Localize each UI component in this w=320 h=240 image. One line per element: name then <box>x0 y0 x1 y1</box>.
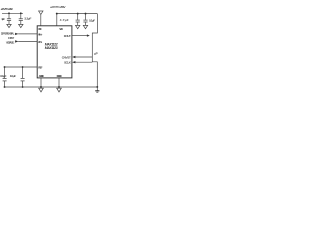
node dot gnd rail uP bus <box>96 86 98 88</box>
svg-text:AIN-: AIN- <box>38 40 42 44</box>
ground AGND <box>39 88 44 92</box>
svg-text:CNVST: CNVST <box>62 55 71 59</box>
svg-text:AIN+: AIN+ <box>38 32 43 36</box>
node dot DVDD rail <box>56 13 58 15</box>
ground for C1 <box>7 24 11 27</box>
svg-text:VOLTAGE: VOLTAGE <box>6 40 14 44</box>
svg-text:10µF: 10µF <box>10 74 17 78</box>
node dot REF wire C6 <box>22 66 24 68</box>
svg-text:MAX1123: MAX1123 <box>45 46 58 50</box>
wire DGND stub <box>58 78 60 87</box>
arrowhead CNVST <box>72 56 75 58</box>
wire AIN- input <box>18 40 37 42</box>
wire left supply rail <box>2 12 23 14</box>
wire top right supply rail <box>57 13 98 15</box>
wire uP bus right <box>92 14 97 91</box>
wire DOUT <box>72 35 87 37</box>
capacitor C3 right <box>76 14 80 26</box>
svg-text:+2.7V TO +5.5V: +2.7V TO +5.5V <box>50 5 65 9</box>
node dot REF wire C5 <box>4 66 6 68</box>
svg-text:SCLK: SCLK <box>64 61 72 65</box>
svg-text:0.1µF: 0.1µF <box>89 19 95 23</box>
svg-text:1µF: 1µF <box>1 17 5 21</box>
node dot rail C3 <box>77 13 79 15</box>
arrowhead DOUT <box>87 34 90 36</box>
wire AVDD stub <box>40 15 42 26</box>
ground DGND <box>57 88 62 92</box>
wire AGND stub <box>40 78 42 87</box>
capacitor C2 left <box>19 13 23 24</box>
node dot gnd rail C5 <box>4 86 6 88</box>
wire bottom ground rail <box>4 86 98 88</box>
node dot gnd rail C6 <box>22 86 24 88</box>
svg-text:3.3µF: 3.3µF <box>24 17 31 21</box>
capacitor C4 right <box>83 14 87 26</box>
wire AIN+ input <box>18 33 37 35</box>
arrowhead SCLK <box>72 61 75 63</box>
capacitor C1 left <box>7 13 11 24</box>
op-amp U1 IC box MAX1122 <box>37 26 72 78</box>
svg-text:REF: REF <box>38 65 42 69</box>
wire DVDD stub <box>56 14 58 26</box>
capacitor C5 ref <box>3 67 7 87</box>
wire CNVST <box>75 56 92 58</box>
capacitor C6 ref <box>21 67 25 87</box>
node dot rail C4 <box>85 13 87 15</box>
svg-text:4.7µF: 4.7µF <box>60 18 69 22</box>
ground for C4 <box>83 25 87 28</box>
wire REF <box>4 66 38 68</box>
node dot left rail C1 <box>8 12 10 14</box>
node dot gnd rail DGND <box>58 86 60 88</box>
node dot left rail C2 <box>20 12 22 14</box>
svg-text:µP: µP <box>94 51 97 55</box>
wire SCLK <box>75 61 92 63</box>
supply arrow symbol AVDD <box>39 11 43 15</box>
ground for C2 <box>19 24 23 27</box>
svg-text:0.1µF: 0.1µF <box>0 74 6 78</box>
svg-text:+2.7V TO +3.6V: +2.7V TO +3.6V <box>1 7 13 11</box>
svg-text:DGND: DGND <box>57 74 63 78</box>
node dot gnd rail AGND <box>40 86 42 88</box>
arrowhead AIN+ <box>15 33 18 35</box>
ground uP bus bottom <box>95 91 99 92</box>
ground for C3 <box>76 25 80 28</box>
svg-text:DOUT: DOUT <box>64 34 71 38</box>
svg-text:AGND: AGND <box>39 74 45 78</box>
arrowhead AIN- <box>15 40 18 42</box>
